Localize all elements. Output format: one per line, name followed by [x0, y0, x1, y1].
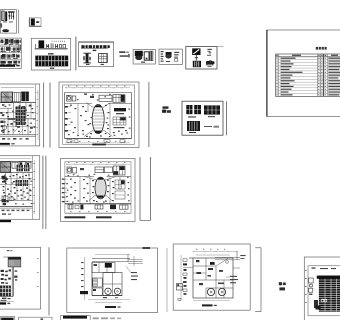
vertical fold line right of P2: [148, 82, 150, 147]
plan P5: first-floor plumbing plan sheet: [61, 158, 136, 221]
plan P1: ground-floor plan sheet (left edge cut): [0, 84, 40, 146]
sheet F: pump room detail sheet: [133, 50, 155, 65]
sheet H: shaft details sheet: [186, 47, 224, 70]
sheet E: fixture details sheet: [79, 42, 114, 67]
tiny scale-number cluster (24): [279, 282, 286, 290]
bottom row sheet 1 (cut at bottom): [1, 317, 15, 320]
vertical fold lines right of P5: [139, 157, 141, 220]
vertical fold lines between P1 and P2: [43, 83, 45, 148]
tiny note cluster between sheets E and F: [119, 51, 130, 57]
bottom row sheet 2 (cut at bottom): [19, 317, 53, 320]
sheet B: small detail block: [29, 18, 41, 27]
plan P8: kitchen-toilet detail plan sheet: [173, 244, 250, 310]
plan P6: stair/core plan sheet (left edge cut): [0, 247, 41, 309]
vertical edge line right of sheet A: [18, 10, 20, 34]
bottom row sheet 3 with dark header (cut at bottom): [61, 315, 90, 320]
sheet A: electrical system diagram: [0, 10, 17, 33]
sheet S10: riser detail blocks sheet: [182, 101, 223, 135]
vertical edge line with end ticks right of P8: [255, 248, 261, 312]
plan P2: first-floor electrical plan sheet: [59, 82, 139, 148]
vertical separator line between sheet D and sheet E: [75, 37, 77, 71]
vertical edge line right of P7: [166, 248, 168, 312]
plan P9: riser-system sheet (cut at right and bottom): [304, 257, 340, 320]
vertical edge line right of S10: [226, 101, 228, 135]
sheet G: equipment detail sheet: [159, 49, 182, 64]
plan P4: plumbing floor plan sheet (left edge cut): [0, 156, 40, 223]
sheet D: elevation and riser band diagram sheet: [31, 38, 70, 70]
drawing-list table sheet (tu zhi mu lu): [267, 30, 340, 117]
sheet C: dense wiring schematic sheet: [0, 38, 21, 69]
vertical fold lines between P4 and P5: [42, 156, 44, 229]
vertical fold line right of P6: [48, 247, 50, 315]
faint note text on bottom edge: [93, 317, 121, 319]
tiny note cluster right of P2: [162, 106, 171, 112]
plan P7: toilet detail plan sheet: [67, 248, 158, 313]
